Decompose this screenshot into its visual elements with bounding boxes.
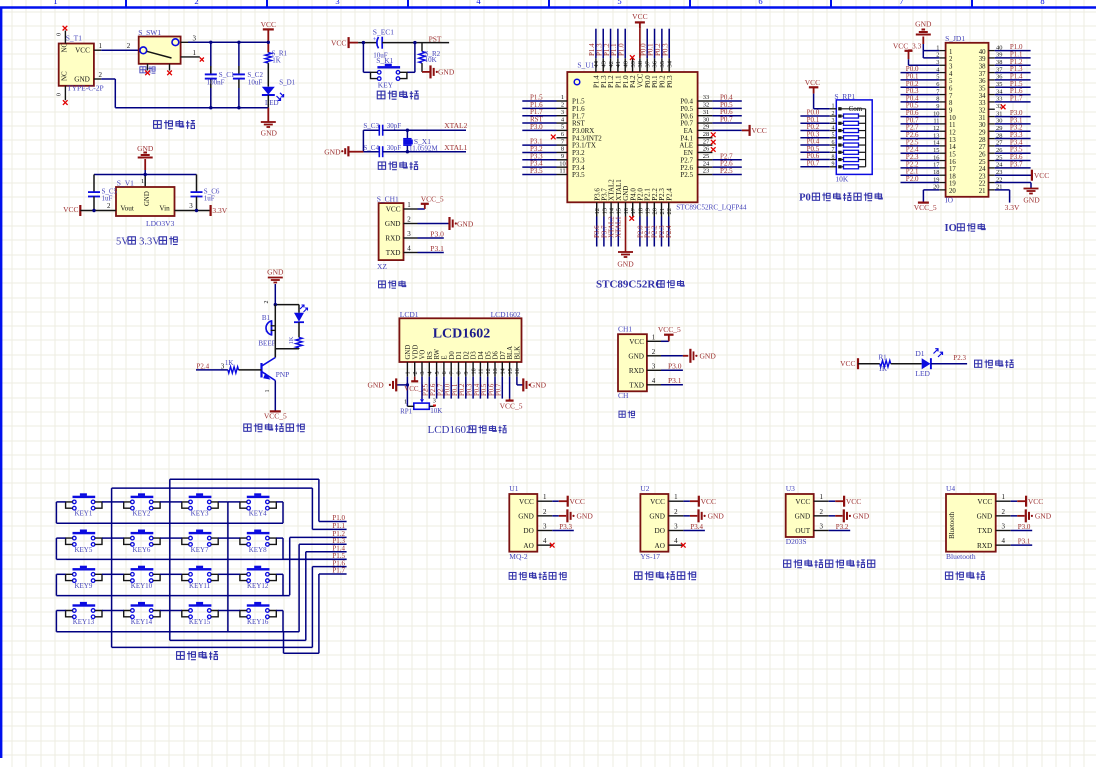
svg-text:RXD: RXD bbox=[977, 542, 992, 550]
svg-text:CH: CH bbox=[618, 391, 629, 400]
svg-text:IO: IO bbox=[945, 195, 953, 204]
svg-text:12: 12 bbox=[594, 208, 601, 215]
svg-text:1: 1 bbox=[1001, 493, 1005, 501]
svg-text:7: 7 bbox=[448, 371, 455, 374]
svg-text:1: 1 bbox=[561, 94, 564, 101]
svg-text:2: 2 bbox=[832, 111, 835, 117]
svg-text:38: 38 bbox=[979, 63, 986, 70]
svg-text:16: 16 bbox=[514, 368, 521, 374]
svg-text:5: 5 bbox=[561, 124, 564, 131]
svg-text:P0.1: P0.1 bbox=[452, 384, 459, 396]
svg-text:39: 39 bbox=[630, 61, 637, 68]
svg-text:1: 1 bbox=[949, 49, 952, 56]
svg-text:DO: DO bbox=[655, 527, 665, 535]
svg-text:S_C3: S_C3 bbox=[363, 122, 379, 130]
svg-text:KEY4: KEY4 bbox=[249, 510, 267, 518]
svg-text:GND: GND bbox=[577, 511, 594, 520]
svg-text:VCC: VCC bbox=[846, 497, 861, 506]
svg-text:D2: D2 bbox=[463, 351, 470, 360]
svg-text:VCC: VCC bbox=[650, 498, 665, 506]
svg-text:17: 17 bbox=[630, 207, 637, 214]
svg-text:VCC: VCC bbox=[519, 498, 534, 506]
svg-text:10K: 10K bbox=[430, 407, 442, 415]
svg-text:VCC: VCC bbox=[795, 498, 810, 506]
svg-text:Vout: Vout bbox=[120, 205, 133, 213]
svg-text:P0.2: P0.2 bbox=[459, 383, 466, 396]
svg-text:21: 21 bbox=[979, 188, 986, 195]
svg-text:19: 19 bbox=[949, 181, 956, 188]
svg-text:+: + bbox=[265, 329, 268, 335]
svg-text:GND: GND bbox=[617, 260, 634, 269]
svg-text:GND: GND bbox=[438, 68, 455, 77]
svg-text:11: 11 bbox=[478, 369, 485, 375]
svg-text:100nF: 100nF bbox=[207, 78, 225, 86]
svg-text:P2.5: P2.5 bbox=[720, 167, 733, 175]
svg-text:P2.5: P2.5 bbox=[680, 171, 693, 179]
svg-text:36: 36 bbox=[652, 60, 659, 67]
svg-text:RS: RS bbox=[427, 351, 434, 360]
svg-text:D1: D1 bbox=[915, 349, 924, 358]
svg-text:S_K1: S_K1 bbox=[376, 56, 393, 65]
svg-text:U1: U1 bbox=[509, 484, 518, 493]
svg-text:GND: GND bbox=[977, 512, 993, 520]
svg-text:P1.0: P1.0 bbox=[332, 514, 345, 522]
svg-text:3.3V: 3.3V bbox=[1005, 203, 1020, 212]
svg-text:10: 10 bbox=[470, 368, 477, 374]
svg-text:XZ: XZ bbox=[377, 262, 387, 271]
svg-text:1K: 1K bbox=[272, 57, 281, 65]
svg-text:P1.1: P1.1 bbox=[332, 522, 345, 530]
svg-text:GND: GND bbox=[367, 381, 384, 390]
svg-text:KEY15: KEY15 bbox=[189, 618, 211, 626]
svg-text:13: 13 bbox=[949, 137, 956, 144]
svg-text:RXD: RXD bbox=[385, 235, 400, 243]
svg-text:PST: PST bbox=[429, 35, 442, 44]
svg-text:GND: GND bbox=[324, 147, 341, 156]
svg-text:32: 32 bbox=[979, 107, 986, 114]
svg-text:20: 20 bbox=[949, 188, 956, 195]
svg-text:VCC: VCC bbox=[701, 497, 716, 506]
svg-text:GND: GND bbox=[530, 381, 547, 390]
svg-text:10: 10 bbox=[949, 115, 956, 122]
svg-text:19: 19 bbox=[645, 208, 652, 215]
svg-text:2: 2 bbox=[107, 202, 111, 210]
svg-text:GND: GND bbox=[1035, 511, 1052, 520]
svg-text:GND: GND bbox=[267, 267, 284, 276]
svg-text:VCC_5: VCC_5 bbox=[264, 411, 287, 420]
svg-text:KEY5: KEY5 bbox=[74, 546, 92, 554]
svg-text:35: 35 bbox=[659, 61, 666, 68]
svg-text:8: 8 bbox=[1040, 0, 1044, 6]
svg-text:3: 3 bbox=[419, 371, 426, 374]
svg-text:1K: 1K bbox=[225, 359, 234, 367]
svg-text:GND: GND bbox=[628, 352, 644, 360]
svg-text:11: 11 bbox=[559, 168, 565, 175]
svg-text:36: 36 bbox=[979, 78, 986, 85]
svg-text:3: 3 bbox=[407, 230, 411, 238]
svg-text:VCC: VCC bbox=[1034, 171, 1049, 180]
svg-text:22: 22 bbox=[979, 181, 986, 188]
svg-text:14: 14 bbox=[609, 207, 616, 214]
svg-text:3: 3 bbox=[189, 202, 193, 210]
svg-text:DO: DO bbox=[523, 527, 533, 535]
svg-text:P3.3: P3.3 bbox=[559, 523, 572, 531]
svg-text:D3: D3 bbox=[471, 351, 478, 360]
svg-text:P0.6: P0.6 bbox=[488, 383, 495, 396]
svg-text:4: 4 bbox=[652, 377, 656, 385]
svg-text:XTAL2: XTAL2 bbox=[444, 121, 467, 130]
svg-text:P2.0: P2.0 bbox=[906, 175, 919, 183]
svg-text:40: 40 bbox=[979, 49, 986, 56]
svg-text:44: 44 bbox=[593, 60, 600, 67]
svg-text:P0.7: P0.7 bbox=[807, 159, 820, 167]
svg-text:10uF: 10uF bbox=[248, 78, 263, 86]
svg-text:P3.0: P3.0 bbox=[530, 123, 543, 131]
svg-text:1uF: 1uF bbox=[102, 195, 113, 203]
svg-text:2: 2 bbox=[264, 301, 270, 304]
svg-text:D1: D1 bbox=[456, 351, 463, 359]
svg-text:MQ-2: MQ-2 bbox=[509, 552, 528, 561]
svg-text:STC89C52RC_LQFP44: STC89C52RC_LQFP44 bbox=[676, 204, 747, 212]
svg-text:U4: U4 bbox=[946, 484, 955, 493]
svg-text:30pF: 30pF bbox=[387, 144, 402, 152]
svg-text:P0.3: P0.3 bbox=[467, 383, 474, 396]
svg-text:XTAL1: XTAL1 bbox=[615, 216, 623, 238]
svg-text:4: 4 bbox=[407, 245, 411, 253]
svg-text:42: 42 bbox=[608, 61, 615, 68]
svg-text:VCC_5: VCC_5 bbox=[421, 194, 444, 203]
svg-text:1: 1 bbox=[265, 390, 271, 393]
svg-text:VCC_5: VCC_5 bbox=[914, 203, 937, 212]
svg-text:2: 2 bbox=[1001, 508, 1005, 516]
svg-text:LCD1602: LCD1602 bbox=[428, 424, 472, 436]
svg-text:7: 7 bbox=[899, 0, 903, 6]
svg-text:3: 3 bbox=[674, 523, 678, 531]
svg-text:4: 4 bbox=[1001, 537, 1005, 545]
svg-text:P1.7: P1.7 bbox=[1010, 94, 1023, 102]
svg-text:P2.4: P2.4 bbox=[197, 362, 210, 370]
svg-text:26: 26 bbox=[703, 146, 710, 153]
svg-text:5: 5 bbox=[617, 0, 621, 6]
svg-text:GND: GND bbox=[700, 352, 717, 361]
svg-text:Bluetooth: Bluetooth bbox=[946, 552, 976, 561]
svg-text:5: 5 bbox=[434, 371, 441, 374]
svg-text:YS-17: YS-17 bbox=[640, 552, 660, 561]
svg-text:2: 2 bbox=[819, 508, 823, 516]
svg-text:P3.0: P3.0 bbox=[668, 361, 682, 370]
svg-text:KEY11: KEY11 bbox=[189, 582, 211, 590]
svg-text:TYPE-C-2P: TYPE-C-2P bbox=[67, 84, 104, 93]
svg-text:13: 13 bbox=[601, 208, 608, 215]
svg-text:10K: 10K bbox=[425, 56, 437, 64]
svg-text:3: 3 bbox=[832, 118, 835, 124]
svg-text:1: 1 bbox=[543, 493, 547, 501]
svg-text:31: 31 bbox=[979, 115, 986, 122]
svg-text:16: 16 bbox=[623, 207, 630, 214]
svg-text:S_CH1: S_CH1 bbox=[377, 194, 399, 203]
svg-text:17: 17 bbox=[949, 166, 956, 173]
svg-text:KEY: KEY bbox=[378, 81, 394, 90]
svg-text:AO: AO bbox=[655, 542, 665, 550]
svg-text:4: 4 bbox=[832, 125, 835, 131]
svg-text:2: 2 bbox=[127, 42, 131, 50]
svg-text:30: 30 bbox=[703, 116, 710, 123]
svg-text:2: 2 bbox=[674, 508, 678, 516]
svg-text:37: 37 bbox=[644, 60, 651, 67]
svg-text:14: 14 bbox=[500, 368, 507, 374]
svg-text:D7: D7 bbox=[500, 351, 507, 360]
svg-text:VCC_5: VCC_5 bbox=[404, 385, 426, 393]
svg-text:S_JD1: S_JD1 bbox=[945, 34, 965, 43]
svg-text:Bluetooth: Bluetooth bbox=[949, 511, 956, 538]
svg-text:4: 4 bbox=[674, 537, 678, 545]
svg-text:12: 12 bbox=[949, 129, 956, 136]
svg-text:VCC_5: VCC_5 bbox=[658, 325, 681, 334]
svg-text:2: 2 bbox=[407, 216, 411, 224]
svg-text:1: 1 bbox=[819, 493, 823, 501]
svg-text:11: 11 bbox=[949, 122, 956, 129]
svg-text:2: 2 bbox=[412, 371, 419, 374]
svg-text:GND: GND bbox=[74, 76, 90, 84]
svg-text:P3.0: P3.0 bbox=[430, 230, 444, 239]
svg-text:NC: NC bbox=[61, 71, 69, 81]
svg-text:27: 27 bbox=[703, 138, 710, 145]
svg-text:1: 1 bbox=[405, 371, 412, 374]
svg-text:P0.3: P0.3 bbox=[666, 75, 674, 88]
svg-text:18: 18 bbox=[949, 173, 956, 180]
svg-text:9: 9 bbox=[561, 153, 564, 160]
svg-text:4: 4 bbox=[949, 71, 953, 78]
svg-text:P3.0: P3.0 bbox=[1018, 523, 1031, 531]
svg-text:VCC: VCC bbox=[977, 498, 992, 506]
svg-text:15: 15 bbox=[949, 151, 956, 158]
svg-text:P2.6: P2.6 bbox=[430, 383, 437, 396]
svg-text:1: 1 bbox=[404, 399, 407, 406]
svg-text:5: 5 bbox=[949, 78, 953, 85]
svg-text:TXD: TXD bbox=[977, 527, 992, 535]
svg-text:VCC: VCC bbox=[386, 206, 401, 214]
svg-text:32: 32 bbox=[703, 102, 710, 109]
svg-text:D6: D6 bbox=[493, 351, 500, 360]
svg-text:30: 30 bbox=[979, 122, 986, 129]
svg-text:GND: GND bbox=[385, 220, 401, 228]
svg-text:KEY6: KEY6 bbox=[133, 546, 151, 554]
svg-text:P0.0: P0.0 bbox=[445, 383, 452, 396]
svg-text:31: 31 bbox=[703, 109, 710, 116]
svg-text:D203S: D203S bbox=[786, 537, 807, 546]
svg-text:8: 8 bbox=[456, 371, 463, 374]
svg-text:AO: AO bbox=[523, 542, 533, 550]
svg-text:P3.7: P3.7 bbox=[1010, 160, 1023, 168]
svg-text:25: 25 bbox=[979, 159, 986, 166]
svg-text:25: 25 bbox=[703, 153, 710, 160]
svg-text:KEY3: KEY3 bbox=[191, 510, 209, 518]
svg-text:GND: GND bbox=[1023, 195, 1040, 204]
svg-text:21: 21 bbox=[659, 208, 666, 215]
svg-text:P3.1: P3.1 bbox=[430, 244, 444, 253]
svg-text:GND: GND bbox=[853, 511, 870, 520]
svg-text:TXD: TXD bbox=[629, 381, 644, 389]
svg-text:1: 1 bbox=[141, 178, 144, 185]
svg-text:10K: 10K bbox=[835, 175, 849, 184]
svg-text:3: 3 bbox=[543, 523, 547, 531]
svg-text:8: 8 bbox=[949, 100, 953, 107]
svg-text:2: 2 bbox=[652, 348, 656, 356]
svg-text:7: 7 bbox=[832, 147, 835, 153]
svg-text:6: 6 bbox=[949, 85, 953, 92]
svg-text:S_EC1: S_EC1 bbox=[373, 27, 395, 36]
svg-text:P2.7: P2.7 bbox=[437, 383, 444, 396]
svg-text:S_D1: S_D1 bbox=[279, 79, 295, 87]
svg-text:39: 39 bbox=[979, 56, 986, 63]
svg-text:27: 27 bbox=[979, 144, 986, 151]
svg-text:RW: RW bbox=[434, 348, 441, 359]
svg-text:BEEP: BEEP bbox=[258, 340, 275, 348]
svg-text:KEY12: KEY12 bbox=[247, 582, 269, 590]
svg-text:P0.7: P0.7 bbox=[496, 383, 503, 396]
svg-text:BLA: BLA bbox=[507, 346, 514, 360]
svg-text:28: 28 bbox=[703, 131, 710, 138]
svg-text:VCC_3.3: VCC_3.3 bbox=[893, 42, 922, 51]
svg-text:24: 24 bbox=[979, 166, 986, 173]
svg-text:B1: B1 bbox=[262, 314, 271, 322]
svg-text:35: 35 bbox=[979, 85, 986, 92]
svg-text:P0.5: P0.5 bbox=[481, 383, 488, 396]
svg-text:1: 1 bbox=[674, 493, 678, 501]
svg-text:3: 3 bbox=[949, 63, 953, 70]
svg-text:VCC: VCC bbox=[261, 20, 276, 29]
svg-text:S_T1: S_T1 bbox=[66, 33, 83, 42]
svg-text:P3.1: P3.1 bbox=[1018, 538, 1031, 546]
svg-text:34: 34 bbox=[979, 93, 986, 100]
svg-text:GND: GND bbox=[649, 512, 665, 520]
svg-text:P1.7: P1.7 bbox=[332, 567, 345, 575]
svg-text:KEY10: KEY10 bbox=[131, 582, 153, 590]
svg-text:BLK: BLK bbox=[515, 346, 522, 360]
svg-text:VCC: VCC bbox=[331, 39, 346, 48]
svg-text:2: 2 bbox=[949, 56, 953, 63]
svg-text:P3.5: P3.5 bbox=[530, 167, 543, 175]
svg-text:P1.0: P1.0 bbox=[617, 43, 625, 56]
svg-text:GND: GND bbox=[144, 191, 151, 206]
svg-text:P3.5: P3.5 bbox=[572, 171, 585, 179]
svg-text:VCC: VCC bbox=[632, 12, 647, 21]
svg-text:1: 1 bbox=[652, 333, 656, 341]
svg-text:3: 3 bbox=[819, 523, 823, 531]
svg-text:37: 37 bbox=[979, 71, 986, 78]
svg-text:S_SW1: S_SW1 bbox=[138, 28, 161, 37]
svg-text:1: 1 bbox=[193, 49, 197, 57]
svg-text:KEY13: KEY13 bbox=[73, 618, 95, 626]
svg-text:NC: NC bbox=[61, 42, 69, 52]
svg-text:1K: 1K bbox=[288, 336, 295, 344]
svg-text:6: 6 bbox=[832, 140, 835, 146]
svg-text:6: 6 bbox=[758, 0, 762, 6]
svg-text:TXD: TXD bbox=[386, 249, 401, 257]
svg-text:30pF: 30pF bbox=[387, 122, 402, 130]
svg-text:3.3V: 3.3V bbox=[212, 206, 227, 215]
svg-text:26: 26 bbox=[979, 151, 986, 158]
svg-text:2: 2 bbox=[99, 71, 103, 79]
svg-text:10: 10 bbox=[559, 160, 566, 167]
svg-text:9: 9 bbox=[949, 107, 953, 114]
svg-text:P0: P0 bbox=[799, 193, 811, 204]
svg-text:VCC: VCC bbox=[629, 338, 644, 346]
svg-text:KEY2: KEY2 bbox=[133, 510, 151, 518]
svg-text:14: 14 bbox=[949, 144, 956, 151]
svg-text:1uF: 1uF bbox=[204, 195, 215, 203]
svg-text:LCD1602: LCD1602 bbox=[491, 310, 521, 319]
svg-text:VCC_5: VCC_5 bbox=[500, 402, 523, 411]
svg-text:3: 3 bbox=[1001, 523, 1005, 531]
svg-text:1: 1 bbox=[99, 42, 103, 50]
svg-text:S_V1: S_V1 bbox=[117, 178, 134, 187]
svg-text:20: 20 bbox=[652, 208, 659, 215]
svg-text:3: 3 bbox=[193, 35, 197, 43]
svg-text:3: 3 bbox=[652, 362, 656, 370]
svg-text:12: 12 bbox=[485, 368, 492, 374]
svg-text:7: 7 bbox=[949, 93, 953, 100]
svg-text:5: 5 bbox=[832, 133, 835, 139]
svg-text:VCC: VCC bbox=[805, 78, 820, 87]
svg-text:U3: U3 bbox=[786, 484, 795, 493]
svg-text:OUT: OUT bbox=[795, 527, 810, 535]
svg-text:8: 8 bbox=[561, 146, 564, 153]
svg-text:40: 40 bbox=[622, 61, 629, 68]
svg-text:23: 23 bbox=[703, 168, 710, 175]
svg-text:KEY8: KEY8 bbox=[249, 546, 267, 554]
svg-text:Vin: Vin bbox=[159, 205, 170, 213]
svg-text:1K: 1K bbox=[879, 365, 888, 373]
svg-text:VCC: VCC bbox=[63, 205, 78, 214]
svg-text:STC89C52RC: STC89C52RC bbox=[596, 279, 663, 291]
svg-text:D0: D0 bbox=[449, 351, 456, 360]
svg-text:5V: 5V bbox=[116, 236, 129, 247]
svg-text:GND: GND bbox=[518, 512, 534, 520]
svg-text:CH1: CH1 bbox=[618, 325, 632, 334]
svg-text:13: 13 bbox=[492, 368, 499, 374]
svg-text:VCC: VCC bbox=[75, 47, 90, 55]
svg-text:41: 41 bbox=[615, 61, 622, 68]
svg-text:GND: GND bbox=[795, 512, 811, 520]
svg-text:LED: LED bbox=[265, 99, 279, 107]
svg-text:R1: R1 bbox=[879, 353, 888, 361]
svg-text:P3.4: P3.4 bbox=[690, 523, 703, 531]
svg-text:D5: D5 bbox=[485, 351, 492, 360]
svg-text:U2: U2 bbox=[640, 484, 649, 493]
svg-text:LCD1602: LCD1602 bbox=[433, 327, 491, 342]
svg-text:P2.3: P2.3 bbox=[953, 354, 966, 362]
svg-text:KEY9: KEY9 bbox=[74, 582, 92, 590]
svg-text:11.0592M: 11.0592M bbox=[409, 144, 438, 152]
svg-text:S_C4: S_C4 bbox=[363, 144, 379, 152]
svg-text:KEY1: KEY1 bbox=[74, 510, 92, 518]
svg-text:4: 4 bbox=[543, 537, 547, 545]
svg-text:6: 6 bbox=[441, 371, 448, 374]
svg-text:VCC: VCC bbox=[570, 497, 585, 506]
svg-text:PNP: PNP bbox=[276, 370, 290, 379]
svg-text:29: 29 bbox=[703, 124, 710, 131]
svg-text:38: 38 bbox=[637, 61, 644, 68]
svg-text:29: 29 bbox=[979, 129, 986, 136]
svg-text:2: 2 bbox=[543, 508, 547, 516]
svg-text:33: 33 bbox=[979, 100, 986, 107]
svg-text:23: 23 bbox=[979, 173, 986, 180]
svg-text:VCC: VCC bbox=[1028, 497, 1043, 506]
svg-text:D4: D4 bbox=[478, 351, 485, 360]
svg-text:P2.4: P2.4 bbox=[665, 225, 673, 238]
svg-text:GND: GND bbox=[708, 511, 725, 520]
